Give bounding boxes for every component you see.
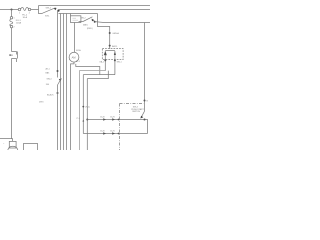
wire pole3 horizontal <box>87 71 108 79</box>
switch SW1 blade <box>43 8 56 14</box>
node battery junction <box>11 9 13 11</box>
relay K1 dashed box <box>102 49 123 60</box>
wire ground feed left <box>0 138 13 140</box>
svg-text:SW-2: SW-2 <box>81 17 87 19</box>
wire starter row2 <box>83 133 147 135</box>
svg-text:16-R: 16-R <box>110 117 115 119</box>
box light switch <box>71 16 81 23</box>
switch SW3 blade <box>141 111 144 117</box>
battery polarity mark <box>9 54 11 56</box>
switch SW4 blade <box>58 79 62 85</box>
node row2 panel entry <box>118 133 120 135</box>
wire regulator feed corner <box>98 14 110 49</box>
wire battery to coil <box>12 59 13 139</box>
wire switch feed corner <box>39 6 43 14</box>
svg-text:B: B <box>147 100 149 102</box>
svg-text:(P-2): (P-2) <box>85 107 90 109</box>
node pole2 tap <box>82 120 84 122</box>
connector row2 b <box>112 132 115 135</box>
wire bus2 <box>60 14 62 151</box>
svg-text:GA-1: GA-1 <box>99 60 105 63</box>
node regulator feed lower <box>109 45 111 47</box>
wire rail3 <box>59 13 98 15</box>
svg-text:SWITCH: SWITCH <box>132 111 140 113</box>
relay K1 contact right arrow <box>114 51 116 56</box>
svg-text:100A: 100A <box>16 22 22 25</box>
wire pole1 horizontal <box>80 71 106 150</box>
switch SW3 arrowhead <box>140 116 143 119</box>
connector row1 a <box>103 118 106 121</box>
panel dashed boundary top <box>120 103 144 105</box>
wire battery drop lower <box>11 28 13 52</box>
ammeter M1 <box>69 52 79 62</box>
svg-text:30 A: 30 A <box>23 16 28 19</box>
connector row2 a <box>103 132 106 135</box>
wire bus1 <box>57 11 59 78</box>
node relay pole left <box>104 59 106 61</box>
box distributor <box>24 144 38 153</box>
wire rail2 <box>59 9 151 11</box>
wire bus1 lower <box>57 85 59 150</box>
panel dashed boundary left <box>119 104 121 151</box>
svg-text:GEN-A: GEN-A <box>112 32 119 35</box>
switch SW2 blade <box>83 17 92 22</box>
relay K1 contact left arrow <box>104 51 106 56</box>
fuse FU2 <box>18 7 30 10</box>
switch SW2 feed <box>79 21 83 23</box>
node bus1 lower <box>57 92 59 94</box>
svg-text:1: 1 <box>19 13 20 15</box>
wire bus4 <box>66 14 68 151</box>
svg-text:AT-1: AT-1 <box>76 60 81 63</box>
wire top feed horizontal <box>0 9 18 11</box>
wire coil drop <box>12 139 14 142</box>
node switch output <box>57 10 59 12</box>
wire SW2 output rail <box>95 21 150 24</box>
node starter row1 junction <box>144 119 146 121</box>
wire starter row1 <box>87 120 147 134</box>
wire ammeter feed <box>74 23 76 53</box>
svg-text:2: 2 <box>14 27 15 29</box>
connector row1 b <box>112 118 115 121</box>
switch SW2 arrowhead <box>92 19 95 22</box>
svg-text:BLACK: BLACK <box>47 93 54 96</box>
wire fuse2 to corner <box>31 9 39 11</box>
fuse FU1 <box>10 17 13 28</box>
svg-text:16-B: 16-B <box>100 131 105 133</box>
wire pole2 horizontal <box>83 74 115 76</box>
wire bus3 <box>63 14 65 151</box>
wire right drop <box>144 23 146 112</box>
svg-text:SW-1: SW-1 <box>46 7 52 9</box>
svg-text:AM: AM <box>72 56 76 60</box>
svg-text:300: 300 <box>46 84 50 86</box>
svg-text:AT-A: AT-A <box>76 49 81 52</box>
wire battery drop upper <box>11 10 13 17</box>
box light switch inner marks <box>73 18 79 20</box>
wire gen branch <box>76 64 100 75</box>
switch SW4 arrowhead <box>59 78 62 81</box>
svg-text:16-R: 16-R <box>110 131 115 133</box>
svg-text:(RED): (RED) <box>87 28 93 30</box>
svg-text:2: 2 <box>29 13 30 15</box>
svg-text:16-B: 16-B <box>100 117 105 119</box>
svg-text:SW-4: SW-4 <box>47 79 53 81</box>
node SW2 output <box>94 21 96 23</box>
svg-text:IGN.: IGN. <box>45 15 50 17</box>
svg-text:BAT-1: BAT-1 <box>112 45 118 48</box>
battery BT1 <box>10 52 17 63</box>
node row1 panel entry <box>118 119 120 121</box>
node right drop terminal <box>144 100 146 102</box>
wire rail1 <box>39 5 151 7</box>
wire pole3 vertical <box>86 79 88 150</box>
wire pole2 vertical <box>82 75 84 134</box>
node pole3 junction <box>86 119 88 121</box>
node regulator feed upper <box>109 32 111 34</box>
relay K1 tee bar <box>105 50 115 52</box>
relay K1 pole stubs <box>105 56 115 75</box>
svg-text:+: + <box>3 143 5 145</box>
svg-text:BAT.: BAT. <box>46 71 51 74</box>
coil T1 <box>8 141 18 150</box>
svg-text:AT-1: AT-1 <box>46 68 51 71</box>
svg-text:P-1: P-1 <box>77 118 81 120</box>
svg-text:1: 1 <box>14 18 15 20</box>
svg-text:MAG.: MAG. <box>83 23 89 26</box>
svg-text:DIST.: DIST. <box>39 102 44 104</box>
node pole2 mid terminal <box>82 106 84 108</box>
box light switch stub <box>70 14 72 16</box>
node bus1 tap <box>57 70 59 72</box>
wire ammeter output step <box>71 62 75 150</box>
node relay pole right <box>114 59 116 61</box>
switch SW1 arrowhead <box>54 8 57 10</box>
svg-text:SW-1: SW-1 <box>117 61 123 63</box>
